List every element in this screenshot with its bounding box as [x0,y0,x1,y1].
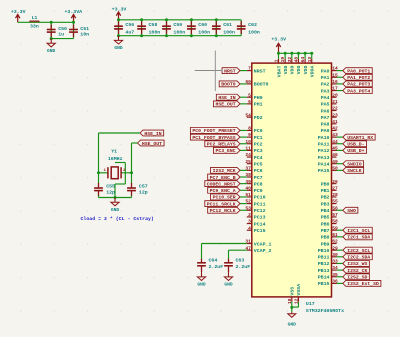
svg-text:PC7_ENC_B: PC7_ENC_B [210,175,236,181]
svg-text:100n: 100n [223,29,235,35]
svg-text:PC9: PC9 [254,188,263,194]
svg-text:6: 6 [248,99,251,105]
svg-text:12p: 12p [139,189,148,195]
svg-text:PA9: PA9 [321,128,330,134]
svg-text:PA2_POT3: PA2_POT3 [347,82,370,88]
svg-text:NRST: NRST [224,68,236,74]
svg-text:PC12_RCLK: PC12_RCLK [210,208,236,214]
svg-text:62: 62 [332,239,338,245]
svg-text:21: 21 [332,99,338,105]
svg-text:VCAP_1: VCAP_1 [254,241,272,247]
svg-text:PC7: PC7 [254,175,263,181]
svg-text:PC2_RELAYS: PC2_RELAYS [207,142,236,148]
svg-text:C61: C61 [223,22,232,28]
svg-text:28: 28 [332,192,338,198]
svg-text:12p: 12p [106,189,115,195]
svg-text:PB14: PB14 [318,275,330,281]
svg-text:3: 3 [248,219,251,225]
svg-text:VDD: VDD [283,66,289,75]
svg-text:PD2: PD2 [254,115,263,121]
svg-text:100n: 100n [173,29,185,35]
svg-text:1: 1 [274,59,280,62]
svg-text:I2C1_SDA: I2C1_SDA [347,235,370,241]
svg-text:L1: L1 [31,15,37,21]
svg-text:32: 32 [287,57,293,63]
svg-text:SWCLK: SWCLK [347,168,362,174]
svg-text:PB15: PB15 [318,281,330,287]
svg-text:PA0: PA0 [321,68,330,74]
svg-text:VDD: VDD [303,66,309,75]
svg-text:42: 42 [332,126,338,132]
svg-text:PC0: PC0 [254,128,263,134]
svg-text:VDD: VDD [290,66,296,75]
svg-text:20: 20 [332,92,338,98]
svg-text:GND: GND [197,282,206,288]
svg-text:C56: C56 [125,22,134,28]
svg-text:PA15: PA15 [318,168,330,174]
svg-text:USB_D-: USB_D- [347,142,364,148]
svg-text:HSE_OUT: HSE_OUT [142,141,162,147]
svg-text:23: 23 [332,112,338,118]
svg-text:PH1: PH1 [254,102,263,108]
svg-text:54: 54 [245,112,251,118]
svg-text:10n: 10n [80,32,89,38]
svg-text:+3.3V: +3.3V [271,37,286,43]
svg-text:PH0: PH0 [254,95,263,101]
svg-text:C51: C51 [80,26,89,32]
svg-text:58: 58 [332,219,338,225]
svg-text:Cload = 2 * (CL - Cstray): Cload = 2 * (CL - Cstray) [81,216,154,222]
svg-text:I2C1_SCL: I2C1_SCL [347,228,370,234]
svg-text:GND: GND [47,48,56,54]
svg-text:1u: 1u [58,32,64,38]
svg-text:PA14: PA14 [318,161,330,167]
svg-text:PB10: PB10 [318,248,330,254]
svg-text:PB7: PB7 [321,228,330,234]
svg-text:CODEC_NRST: CODEC_NRST [207,181,236,187]
svg-text:5: 5 [248,92,251,98]
svg-text:PB11: PB11 [318,255,330,261]
svg-text:PA2: PA2 [321,82,330,88]
svg-text:Y1: Y1 [111,149,117,155]
svg-text:2.2uF: 2.2uF [236,264,251,270]
svg-text:I2S2_SD: I2S2_SD [347,275,367,281]
svg-text:I2C2_SCL: I2C2_SCL [347,248,370,254]
svg-text:PC1: PC1 [254,135,263,141]
svg-text:16MHz: 16MHz [108,156,123,162]
svg-text:PC6: PC6 [254,168,263,174]
svg-text:C58: C58 [149,22,158,28]
svg-text:C63: C63 [236,257,245,263]
svg-text:PB8: PB8 [321,235,330,241]
svg-text:PC11: PC11 [254,201,266,207]
svg-text:GND: GND [114,45,123,51]
svg-text:PB2: PB2 [321,195,330,201]
svg-text:27: 27 [332,185,338,191]
svg-text:PA0_POT1: PA0_POT1 [347,68,370,74]
svg-text:PB6: PB6 [321,221,330,227]
svg-text:PB4: PB4 [321,208,330,214]
svg-text:GND: GND [111,207,120,213]
svg-text:PA10: PA10 [318,135,330,141]
svg-text:VBAT: VBAT [276,66,282,78]
svg-text:PA6: PA6 [321,108,330,114]
svg-text:PC10_SER: PC10_SER [213,195,236,201]
svg-text:7: 7 [248,66,251,72]
svg-text:C62: C62 [248,22,257,28]
svg-text:100n: 100n [149,29,161,35]
svg-text:PA5: PA5 [321,102,330,108]
svg-text:PB9: PB9 [321,241,330,247]
svg-text:9: 9 [248,132,251,138]
svg-text:PC9_ENC_A: PC9_ENC_A [210,188,236,194]
svg-text:100n: 100n [198,29,210,35]
svg-text:C60: C60 [198,22,207,28]
svg-text:55: 55 [332,199,338,205]
svg-text:PA3_POT4: PA3_POT4 [347,88,370,94]
svg-text:NRST: NRST [254,68,266,74]
svg-text:PB3: PB3 [321,201,330,207]
svg-text:2.2uF: 2.2uF [209,264,224,270]
svg-text:8: 8 [248,126,251,132]
svg-text:USB_D+: USB_D+ [347,148,364,154]
svg-text:PB12: PB12 [318,261,330,267]
svg-text:PC10: PC10 [254,195,266,201]
svg-text:PB13: PB13 [318,268,330,274]
svg-text:VDDA: VDDA [310,66,316,78]
svg-text:PC11_SRCLK: PC11_SRCLK [207,201,236,207]
svg-text:57: 57 [332,212,338,218]
svg-text:BOOT0: BOOT0 [221,82,236,88]
svg-text:25: 25 [245,159,251,165]
svg-text:PA8: PA8 [321,122,330,128]
svg-text:100n: 100n [248,29,260,35]
svg-text:PC0_FOOT_PRESET: PC0_FOOT_PRESET [192,128,235,134]
svg-text:48: 48 [293,57,299,63]
svg-text:VDD: VDD [296,66,302,75]
svg-text:HSE_IN: HSE_IN [218,95,235,101]
svg-text:STM32F405RGTx: STM32F405RGTx [306,308,344,314]
svg-text:PC15: PC15 [254,228,266,234]
svg-text:I2S2_WS: I2S2_WS [347,261,367,267]
svg-text:46: 46 [332,152,338,158]
svg-text:24: 24 [245,152,251,158]
svg-text:PC12: PC12 [254,208,266,214]
svg-text:PB0: PB0 [321,181,330,187]
svg-text:PC8: PC8 [254,181,263,187]
svg-text:PC14: PC14 [254,221,266,227]
svg-text:PC3: PC3 [254,148,263,154]
svg-text:VSSA: VSSA [296,284,302,296]
svg-text:GND: GND [288,322,297,328]
svg-text:PB1: PB1 [321,188,330,194]
svg-text:USART1_RX: USART1_RX [347,135,373,141]
svg-text:C57: C57 [139,184,148,190]
svg-text:I2S2_Ext_SD: I2S2_Ext_SD [347,281,379,287]
svg-text:PC3_ENC: PC3_ENC [215,148,235,154]
svg-text:41: 41 [332,119,338,125]
svg-text:HSE_OUT: HSE_OUT [215,102,235,108]
svg-text:PA1: PA1 [321,75,330,81]
svg-text:BOOT0: BOOT0 [254,82,269,88]
svg-text:GND: GND [224,282,233,288]
svg-text:C59: C59 [173,22,182,28]
svg-text:VSS: VSS [290,287,296,296]
svg-text:4: 4 [248,225,251,231]
svg-text:26: 26 [332,179,338,185]
svg-text:PC4: PC4 [254,155,263,161]
svg-text:U17: U17 [306,301,315,307]
svg-text:2: 2 [248,212,251,218]
svg-text:PA12: PA12 [318,148,330,154]
svg-text:PA4: PA4 [321,95,330,101]
svg-text:I2S2_CK: I2S2_CK [347,268,367,274]
svg-text:C64: C64 [209,257,218,263]
svg-text:33n: 33n [30,23,39,29]
svg-text:SWDIO: SWDIO [347,161,362,167]
svg-text:19: 19 [280,57,286,63]
svg-text:PA7: PA7 [321,115,330,121]
svg-text:PC2: PC2 [254,142,263,148]
svg-text:+3.3V: +3.3V [112,6,127,12]
svg-text:PC5: PC5 [254,161,263,167]
svg-text:I2C2_SDA: I2C2_SDA [347,255,370,261]
svg-text:64: 64 [300,57,306,63]
svg-text:PA11: PA11 [318,142,330,148]
svg-text:13: 13 [307,57,313,63]
svg-text:PA3: PA3 [321,88,330,94]
svg-text:I2S2_MCK: I2S2_MCK [213,168,236,174]
svg-text:C55: C55 [106,184,115,190]
svg-text:C50: C50 [58,26,67,32]
svg-text:SWO: SWO [347,208,356,214]
svg-text:PA13: PA13 [318,155,330,161]
svg-text:+3.3VA: +3.3VA [64,9,82,15]
svg-text:+3.3V: +3.3V [11,9,26,15]
svg-text:PC1_FOOT_BYPASS: PC1_FOOT_BYPASS [192,135,235,141]
svg-text:4u7: 4u7 [125,29,134,35]
svg-text:VCAP_2: VCAP_2 [254,248,272,254]
svg-text:PC13: PC13 [254,215,266,221]
svg-text:22: 22 [332,106,338,112]
svg-text:HSE_IN: HSE_IN [144,131,161,137]
svg-text:PB5: PB5 [321,215,330,221]
svg-text:PA1_POT2: PA1_POT2 [347,75,370,81]
